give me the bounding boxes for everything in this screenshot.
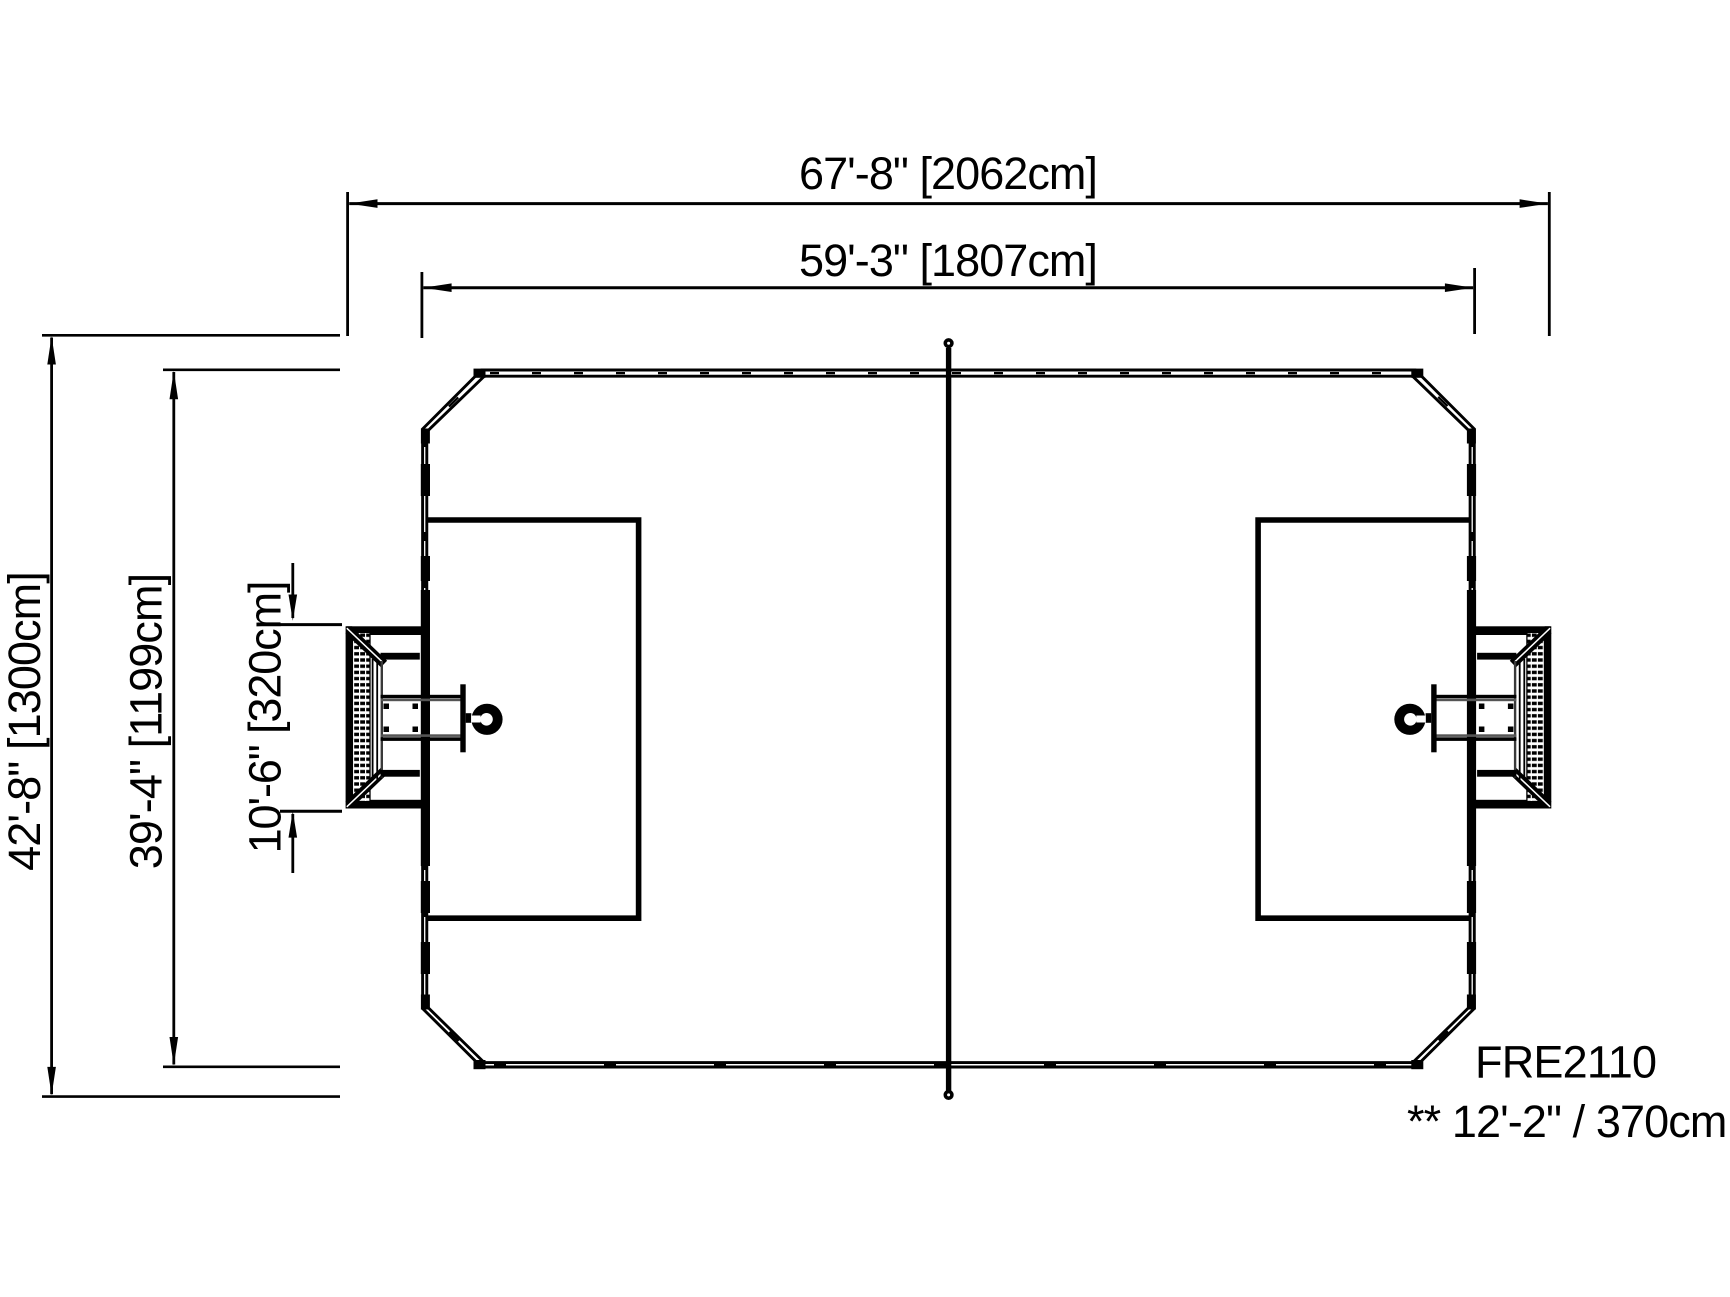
svg-text:10'-6" [320cm]: 10'-6" [320cm] [240, 582, 291, 854]
svg-text:42'-8" [1300cm]: 42'-8" [1300cm] [0, 572, 50, 871]
fence mesh dashes [425, 373, 1473, 1065]
dim 42'-8" extension bottom [42, 1095, 340, 1098]
fence posts left edge [421, 464, 430, 496]
dim 10'-6" extension top [280, 623, 342, 626]
svg-text:59'-3" [1807cm]: 59'-3" [1807cm] [799, 235, 1097, 286]
court boundary outer line [423, 370, 1475, 1067]
dim 67'-8" line [349, 202, 1548, 205]
dim 42'-8" line [50, 338, 53, 1095]
center line bottom circle [945, 1092, 952, 1099]
dim 39'-4" extension bottom [163, 1066, 340, 1069]
court boundary inner line [427, 376, 1470, 1062]
left backstop [346, 626, 503, 808]
dim 59'-3" extension left [420, 272, 423, 338]
dim 39'-4" extension top [163, 368, 340, 371]
dim 67'-8" extension left [346, 192, 349, 336]
dim 59'-3" line [423, 286, 1473, 289]
svg-text:39'-4" [1199cm]: 39'-4" [1199cm] [121, 574, 172, 869]
svg-text:FRE2110: FRE2110 [1475, 1037, 1656, 1088]
center line [946, 348, 951, 1091]
corner joint nubs [421, 429, 430, 444]
dim 10'-6" top stub [291, 563, 294, 618]
dim 39'-4" line [172, 372, 175, 1065]
dim 10'-6" extension bottom [280, 810, 342, 813]
right key rectangle [1258, 520, 1471, 918]
svg-text:** 12'-2" / 370cm: ** 12'-2" / 370cm [1407, 1096, 1726, 1147]
dim 67'-8" extension right [1548, 192, 1551, 336]
dim 10'-6" bottom stub [291, 814, 294, 873]
dim 59'-3" extension right [1473, 268, 1476, 334]
svg-text:67'-8" [2062cm]: 67'-8" [2062cm] [799, 148, 1097, 199]
left key rectangle [426, 520, 639, 918]
dim 42'-8" extension top [42, 334, 340, 337]
right backstop [1394, 626, 1551, 808]
center line top circle [945, 340, 952, 347]
fence posts right edge [1467, 464, 1476, 496]
